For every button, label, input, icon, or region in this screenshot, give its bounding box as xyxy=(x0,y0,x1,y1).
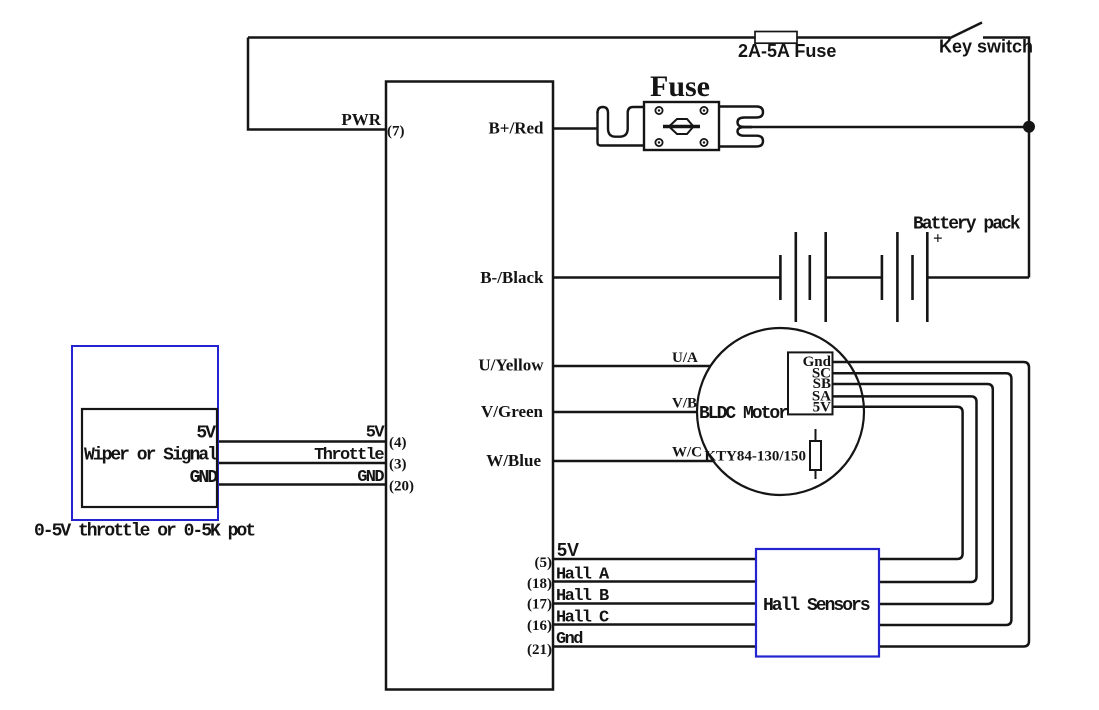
thermistor RT1 lead bottom xyxy=(815,470,817,479)
wire: hall SC from motor connector to hall sensor box xyxy=(833,373,1012,625)
fuse F1 right terminal lower prong xyxy=(719,127,763,146)
svg-text:V/B: V/B xyxy=(672,396,697,412)
wire: throttle GND lead xyxy=(217,483,386,486)
battery BT1 plate short 2 xyxy=(808,255,811,300)
svg-text:U/A: U/A xyxy=(672,350,698,366)
thermistor RT1 body xyxy=(810,441,821,470)
wire: controller Hall A (18) to hall sensors xyxy=(553,580,756,583)
wire: phase U/Yellow xyxy=(553,365,711,368)
battery BT1 plate short 1 xyxy=(779,255,782,300)
svg-text:W/C: W/C xyxy=(672,445,702,461)
svg-text:Throttle: Throttle xyxy=(314,446,384,465)
wire: controller Gnd (21) to hall sensors xyxy=(553,645,756,648)
svg-text:Battery pack: Battery pack xyxy=(913,215,1021,235)
throttle pot inner box xyxy=(82,409,217,507)
wire: B+/Red lead from controller to fuse xyxy=(553,127,598,130)
svg-text:(17): (17) xyxy=(527,597,552,613)
svg-text:(18): (18) xyxy=(527,576,552,592)
svg-text:(20): (20) xyxy=(389,479,414,495)
wire: controller Hall C (16) to hall sensors xyxy=(553,623,756,626)
svg-text:Fuse: Fuse xyxy=(650,70,710,103)
wire: hall 5V from motor connector to hall sensor box xyxy=(833,407,963,559)
svg-text:GND: GND xyxy=(190,468,219,488)
svg-text:Key switch: Key switch xyxy=(939,37,1033,57)
svg-text:5V: 5V xyxy=(366,424,386,443)
svg-text:KTY84-130/150: KTY84-130/150 xyxy=(704,449,806,465)
svg-text:2A-5A Fuse: 2A-5A Fuse xyxy=(738,41,836,61)
fuse F2 2A-5A body xyxy=(755,32,797,44)
svg-text:5V: 5V xyxy=(557,540,579,560)
svg-text:Hall Sensors: Hall Sensors xyxy=(763,596,870,616)
wire: controller Hall B (17) to hall sensors xyxy=(553,602,756,605)
wire: fuse output to junction xyxy=(741,126,1029,129)
svg-text:(21): (21) xyxy=(527,642,552,658)
svg-text:U/Yellow: U/Yellow xyxy=(478,356,544,375)
wire: hall Gnd from motor connector to hall sensor box xyxy=(833,362,1030,647)
svg-text:Gnd: Gnd xyxy=(556,630,583,649)
battery BT1 plate tall 4 xyxy=(926,232,929,322)
fuse F1 element blob xyxy=(669,119,694,134)
svg-text:B+/Red: B+/Red xyxy=(488,119,544,138)
svg-text:B-/Black: B-/Black xyxy=(480,268,544,287)
battery BT1 plate short 3 xyxy=(881,255,884,300)
wire: B-/Black lead from controller to battery xyxy=(553,276,780,279)
battery BT1 plate tall 3 xyxy=(896,232,899,322)
wire: throttle signal lead xyxy=(217,462,386,465)
wire: key switch to right corner and battery+ vertical xyxy=(983,38,1029,278)
battery BT1 plate tall 1 xyxy=(794,232,797,322)
fuse F1 element bar xyxy=(663,125,700,128)
svg-text:Wiper or Signal: Wiper or Signal xyxy=(84,446,218,466)
svg-text:(7): (7) xyxy=(387,124,405,140)
svg-text:5V: 5V xyxy=(196,424,216,444)
battery BT1 xyxy=(780,232,927,322)
svg-text:(4): (4) xyxy=(389,435,407,451)
wire: battery positive to right vertical xyxy=(927,276,1029,279)
svg-text:(3): (3) xyxy=(389,457,407,473)
battery BT1 plate short 4 xyxy=(911,255,914,300)
svg-text:BLDC Motor: BLDC Motor xyxy=(699,404,788,424)
thermistor RT1 lead top xyxy=(815,429,817,441)
svg-text:GND: GND xyxy=(357,468,384,487)
hall sensors assembly A1 box xyxy=(756,549,879,657)
fuse F1 body xyxy=(644,102,719,150)
wire: phase V/Green xyxy=(553,411,697,414)
battery BT1 plate tall 2 xyxy=(824,232,827,322)
svg-text:5V: 5V xyxy=(813,400,832,416)
wire: top bus from PWR riser to key switch xyxy=(248,36,950,39)
svg-text:+: + xyxy=(933,229,943,248)
fuse F1 screw bottom-left xyxy=(655,139,662,146)
key switch S1 lever xyxy=(948,23,982,40)
wire: PWR riser and PWR lead xyxy=(248,38,386,130)
fuse F1 right terminal upper prong xyxy=(719,107,763,127)
svg-text:V/Green: V/Green xyxy=(481,402,544,421)
wire: hall SB from motor connector to hall sensor box xyxy=(833,384,993,604)
wire: throttle 5V lead xyxy=(217,440,386,443)
svg-text:Hall B: Hall B xyxy=(556,587,609,606)
svg-text:Hall C: Hall C xyxy=(556,609,609,628)
svg-text:W/Blue: W/Blue xyxy=(486,451,541,470)
fuse F1 screw top-left xyxy=(655,107,662,114)
fuse F1 left terminal xyxy=(598,107,646,137)
junction node: battery+/fuse/key switch xyxy=(1023,121,1035,133)
wire: hall SA from motor connector to hall sensor box xyxy=(833,396,977,582)
svg-text:(5): (5) xyxy=(535,555,553,571)
controller U1 outline xyxy=(386,82,553,690)
wire: controller 5V (5) to hall sensors xyxy=(553,558,756,561)
svg-text:0-5V throttle or 0-5K pot: 0-5V throttle or 0-5K pot xyxy=(34,522,255,542)
svg-text:(16): (16) xyxy=(527,618,552,634)
throttle pot outer box (blue) xyxy=(72,346,218,520)
fuse F1 screw bottom-right xyxy=(700,139,707,146)
fuse F1 screw top-right xyxy=(700,107,707,114)
fuse F1 (ANL) xyxy=(598,102,764,150)
svg-text:Hall A: Hall A xyxy=(556,566,610,585)
wire: battery inter-cell link xyxy=(826,276,882,279)
svg-text:PWR: PWR xyxy=(341,110,381,129)
motor hall connector J2 xyxy=(788,352,833,414)
motor M1 housing xyxy=(697,328,864,495)
wire: phase W/Blue xyxy=(553,460,713,463)
